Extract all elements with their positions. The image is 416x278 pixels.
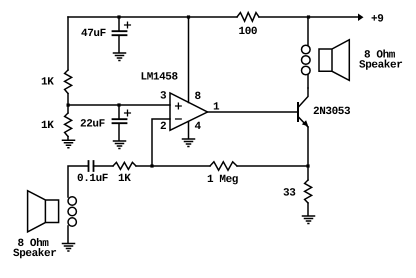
svg-text:22uF: 22uF [80,119,105,131]
wire 22uF top [118,105,120,119]
wire coil bottom to ground [67,226,69,243]
capacitor C 0.1uF [89,161,94,171]
wire 33 to ground [307,203,309,216]
speaker coil bottom-left [68,197,76,205]
svg-text:4: 4 [195,121,202,133]
ground below 1K chain [63,140,75,148]
wire left vertical upper [67,17,69,70]
svg-text:47uF: 47uF [81,28,106,40]
wire 22uF to ground [118,124,120,141]
wire pin 8 to top rail [188,17,190,103]
svg-text:8: 8 [195,91,202,103]
ground below 47uF [114,53,126,61]
+9 supply arrow [358,14,364,22]
wire 1K to 1Meg [136,165,210,167]
resistor R 1K lower [65,113,72,137]
junction dot 47uF top [117,15,120,18]
ground below coil bottom-left [63,244,75,252]
transistor emitter lead [298,117,308,128]
wire feedback left corner [68,166,88,197]
node junction left input [67,104,70,107]
svg-text:0.1uF: 0.1uF [77,173,108,185]
capacitor C 47uF [113,31,127,35]
wire between 1K resistors [67,94,69,114]
plus sign 22uF [125,110,131,116]
op-amp plus input symbol [176,103,182,109]
wire emitter down [307,127,309,166]
transistor emitter arrowhead [302,120,309,126]
wire coil top [307,17,309,46]
op-amp U1 LM1458 triangle [170,93,208,130]
resistor R 1 Meg [210,162,237,170]
resistor R 33 [305,180,312,203]
svg-text:100: 100 [239,26,258,38]
ground op-amp pin 4 [183,139,195,147]
svg-text:1K: 1K [41,77,54,89]
transistor Q1 2N3053 base bar [297,103,299,121]
wire op-amp output to base [208,111,298,113]
svg-text:1K: 1K [118,173,131,185]
speaker icon top-right [319,40,349,81]
wire coil bottom to collector [307,75,309,89]
svg-text:1 Meg: 1 Meg [207,174,238,186]
speaker icon bottom-left [28,191,59,232]
op-amp minus input symbol [176,118,182,120]
svg-text:1K: 1K [41,120,54,132]
wire pin 4 to ground [188,122,190,139]
speaker coil top-right [302,45,311,54]
wire top rail to 47uF [118,17,120,31]
svg-text:2: 2 [160,121,166,133]
wire top rail left segment [68,16,237,18]
junction dot 22uF top [117,103,120,106]
svg-text:33: 33 [283,188,296,200]
junction dot pin 8 top rail [187,15,190,18]
wire 47uF to ground [118,36,120,53]
svg-text:Speaker: Speaker [359,60,402,72]
ground below 22uF [114,141,126,149]
resistor R 1K upper [65,70,72,94]
svg-text:LM1458: LM1458 [141,72,179,84]
ground below 33 [303,216,315,224]
junction dot emitter node [306,164,309,167]
svg-text:Speaker: Speaker [13,248,56,260]
wire noninverting input [68,104,170,106]
svg-text:2N3053: 2N3053 [313,106,351,118]
wire cap to 1K [94,165,114,167]
transistor collector lead [298,88,308,108]
plus sign 47uF [125,22,131,28]
junction dot top rail coil [307,15,310,18]
wire emitter node to 33 [307,166,309,180]
wire inverting input [152,119,170,166]
wire top rail right segment [259,16,358,18]
resistor R 1K feedback [113,162,136,169]
junction dot inverting feedback [150,164,153,167]
wire 1K lower to ground [67,137,69,141]
wire 1Meg to emitter node [237,165,308,167]
svg-text:+9: +9 [371,14,383,26]
capacitor C 22uF [113,119,127,123]
resistor 100 [237,13,259,22]
svg-text:3: 3 [160,91,167,103]
